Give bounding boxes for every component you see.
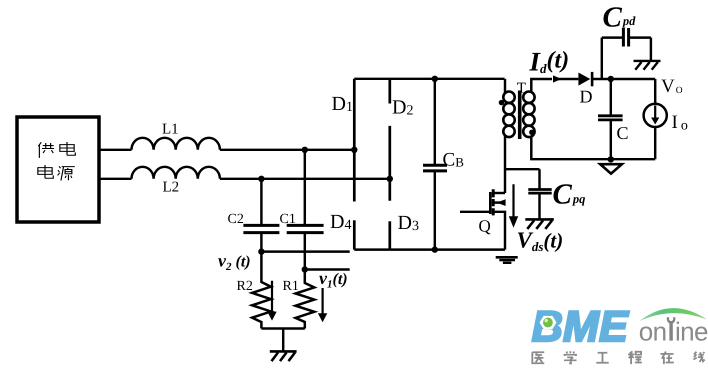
svg-text:C1: C1 — [280, 212, 296, 227]
mosfet Q channel segments — [492, 189, 495, 215]
node top C1 — [302, 147, 308, 153]
source box — [17, 117, 99, 222]
wire diode to node — [592, 78, 655, 80]
mosfet Q drain stub — [494, 192, 505, 194]
wire v2 node — [261, 250, 349, 252]
ground hatched Cpd — [634, 61, 661, 70]
box text 电 — [38, 165, 53, 178]
svg-text:Cpq: Cpq — [553, 179, 586, 211]
resistor R1 — [296, 270, 315, 329]
wire top from box — [99, 149, 132, 151]
wire Cpd leg up — [601, 38, 603, 79]
Vds arrow — [509, 184, 518, 228]
capacitor CB — [423, 79, 447, 250]
inductor L1 — [132, 138, 220, 150]
transformer core — [518, 91, 522, 140]
svg-text:R1: R1 — [283, 279, 299, 294]
box text 电 — [60, 142, 75, 155]
node v1 — [302, 266, 308, 272]
svg-text:R2: R2 — [237, 279, 253, 294]
ground hatched Cpq — [525, 219, 554, 229]
bridge bottom rail — [354, 248, 505, 250]
logo 线 — [693, 352, 704, 362]
box text 源 — [58, 166, 75, 180]
transformer primary dot — [499, 100, 504, 105]
svg-text:Cpd: Cpd — [603, 2, 637, 34]
logo hexagon nut — [540, 316, 557, 329]
svg-text:Vds(t): Vds(t) — [517, 228, 564, 255]
logo swoosh — [640, 308, 708, 321]
ground hatched below R1R2 — [270, 351, 297, 361]
logo 工 — [596, 353, 608, 363]
svg-text:v1(t): v1(t) — [319, 268, 348, 291]
diode D4 leg — [353, 220, 356, 249]
output cap C — [598, 79, 623, 159]
wire resistor bottoms — [261, 327, 304, 329]
svg-text:on: on — [639, 317, 667, 347]
logo green ball — [543, 318, 553, 328]
transformer primary lead bottom — [504, 136, 506, 194]
mosfet body arrowhead — [497, 199, 506, 206]
inductor L2 — [132, 167, 220, 179]
svg-text:D1: D1 — [332, 93, 353, 115]
svg-text:D2: D2 — [392, 97, 413, 119]
box text 供 — [38, 142, 54, 158]
logo 在 — [660, 351, 673, 364]
svg-text:D3: D3 — [398, 212, 419, 234]
svg-text:D: D — [580, 87, 593, 107]
node bottom bridge — [387, 176, 393, 182]
capacitor Cpq — [528, 169, 551, 218]
svg-text:CB: CB — [443, 150, 465, 171]
wire Io branch — [654, 79, 656, 104]
svg-text:ine: ine — [675, 317, 708, 347]
wire secondary to diode — [558, 78, 578, 80]
mosfet Q body wire — [494, 201, 505, 203]
v2 arrow — [267, 281, 276, 321]
diode D1 leg — [353, 79, 356, 202]
wire v1 node — [305, 268, 350, 270]
svg-text:Id(t): Id(t) — [529, 47, 570, 77]
wire Io bottom — [654, 127, 656, 159]
wire gate — [460, 211, 490, 213]
ground mosfet source — [496, 257, 518, 263]
node CB top — [432, 76, 438, 82]
diode D body — [578, 73, 590, 86]
wire Cpd right leg — [650, 38, 652, 61]
capacitor C1 — [287, 150, 324, 270]
logo 医 — [532, 352, 544, 363]
bridge top rail — [354, 78, 504, 80]
wire primary to Cpq — [505, 168, 540, 170]
diode D2 leg — [388, 79, 391, 104]
ground triangle Vo — [600, 164, 622, 173]
svg-text:v2 (t): v2 (t) — [218, 251, 251, 274]
Id arrowhead — [553, 75, 562, 82]
transformer primary winding — [503, 92, 514, 138]
diode D2-D3 mid leg — [388, 126, 391, 201]
diode D bar — [591, 72, 594, 86]
svg-text:C: C — [617, 123, 629, 143]
wire secondary bottom — [531, 136, 655, 160]
svg-text:C2: C2 — [228, 212, 244, 227]
transformer secondary dot — [529, 130, 534, 135]
svg-text:Q: Q — [479, 217, 491, 236]
svg-text:L1: L1 — [162, 122, 179, 138]
logo wrench — [667, 317, 676, 340]
capacitor C2 — [243, 179, 279, 252]
logo 学 — [564, 351, 576, 363]
svg-text:Io: Io — [672, 112, 688, 134]
svg-text:L2: L2 — [163, 180, 180, 196]
current source Io — [644, 104, 667, 127]
wire top to bridge — [220, 149, 354, 151]
node diode out — [608, 76, 614, 82]
svg-text:D4: D4 — [330, 211, 351, 233]
svg-text:T: T — [517, 81, 526, 97]
node CB bottom — [432, 246, 438, 252]
wire bottom to bridge — [220, 178, 390, 180]
Io internal arrow — [651, 106, 659, 125]
node v2 — [258, 248, 264, 254]
node top bridge — [351, 147, 357, 153]
logo 程 — [628, 351, 642, 364]
transformer secondary winding — [523, 92, 534, 138]
svg-text:VO: VO — [661, 76, 683, 97]
capacitor Cpd — [602, 28, 651, 47]
mosfet Q gate bar — [489, 192, 492, 214]
node bottom C2 — [258, 176, 264, 182]
wire ground stub — [282, 329, 284, 352]
node C bottom — [608, 156, 614, 162]
transformer primary lead top — [504, 79, 506, 93]
mosfet Q source stub — [494, 212, 505, 250]
wire bottom from box — [99, 178, 132, 180]
resistor R2 — [252, 252, 271, 329]
transformer secondary lead top — [531, 79, 552, 93]
v1 arrow — [318, 288, 327, 322]
diode D3 leg — [388, 221, 391, 249]
